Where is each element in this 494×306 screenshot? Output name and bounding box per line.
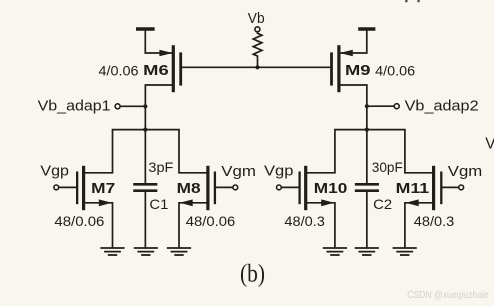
ground (M11) xyxy=(394,248,416,255)
svg-text:M10: M10 xyxy=(314,180,348,197)
svg-text:M9: M9 xyxy=(345,62,371,79)
svg-text:C2: C2 xyxy=(373,196,392,212)
ground (C1) xyxy=(135,248,157,255)
clipped text remnant (top edge) xyxy=(405,0,420,2)
wire M10 gate xyxy=(282,186,299,188)
svg-text:M8: M8 xyxy=(177,180,201,197)
ground (M10) xyxy=(324,248,346,255)
wire M9 drain to C2 xyxy=(339,85,367,183)
junction resistor/gate rail xyxy=(255,65,259,69)
resistor (Vb bias) xyxy=(253,32,262,67)
wire left cell drain rail (M7 drain - node - M8 drain) xyxy=(85,130,206,173)
svg-text:Vgm: Vgm xyxy=(221,164,256,180)
wire M7 source to ground xyxy=(85,203,112,247)
junction Vb_adap1 / M6 drain xyxy=(143,104,147,108)
junction Vb_adap2 / M9 drain xyxy=(365,104,369,108)
transistor M10 xyxy=(300,167,335,208)
svg-text:C1: C1 xyxy=(149,196,168,212)
svg-text:3pF: 3pF xyxy=(148,160,173,175)
transistor M7 xyxy=(77,167,112,208)
svg-text:(b): (b) xyxy=(240,258,265,287)
ground (M7) xyxy=(101,248,123,255)
wire gate rail M6-M9 xyxy=(181,66,332,68)
svg-text:CSDN @xueqiuzhale: CSDN @xueqiuzhale xyxy=(407,289,489,301)
transistor M11 xyxy=(406,167,442,208)
svg-text:Vb_adap2: Vb_adap2 xyxy=(405,98,479,114)
junction right rail / C2 xyxy=(365,128,369,132)
node Vgp (M7 gate: label + open terminal) xyxy=(40,164,69,190)
node Vgm (M11 gate: open terminal + label) xyxy=(448,164,483,190)
wire M8 gate xyxy=(216,186,233,188)
svg-text:M6: M6 xyxy=(143,62,169,79)
svg-text:Vb: Vb xyxy=(248,11,265,27)
wire M6 source xyxy=(145,31,171,54)
wire M8 source to ground xyxy=(179,203,206,247)
node Vgm (M8 gate: open terminal + label) xyxy=(221,164,256,190)
transistor M8 xyxy=(180,167,215,208)
junction left rail / C1 xyxy=(143,128,147,132)
wire M11 gate xyxy=(443,186,459,188)
svg-text:48/0.06: 48/0.06 xyxy=(54,213,104,229)
svg-text:48/0.3: 48/0.3 xyxy=(284,213,325,229)
svg-text:48/0.06: 48/0.06 xyxy=(186,213,236,229)
wire M10 source to ground xyxy=(307,203,335,247)
VDD bar (M9 source) xyxy=(360,27,374,31)
svg-text:30pF: 30pF xyxy=(372,160,403,175)
svg-text:4/0.06: 4/0.06 xyxy=(375,62,415,78)
svg-text:V: V xyxy=(485,136,494,153)
node Vb (label + open terminal) xyxy=(248,11,265,32)
wire M6 drain to C1 xyxy=(145,85,173,183)
capacitor C1 xyxy=(135,184,156,247)
svg-text:Vgm: Vgm xyxy=(448,164,483,180)
svg-text:4/0.06: 4/0.06 xyxy=(99,62,139,78)
svg-text:48/0.3: 48/0.3 xyxy=(414,213,455,229)
wire M11 source to ground xyxy=(405,203,432,247)
wire right cell drain rail (M10 drain - node - M11 drain) xyxy=(307,130,432,173)
ground (M8) xyxy=(168,248,190,255)
node Vb_adap2 (open terminal + label) xyxy=(394,98,478,114)
wire Vb_adap2 tap xyxy=(367,105,394,107)
transistor M9 xyxy=(332,47,353,91)
transistor M6 xyxy=(159,47,180,91)
svg-text:Vb_adap1: Vb_adap1 xyxy=(38,98,111,114)
node Vb_adap1 (label + open terminal) xyxy=(38,98,121,114)
capacitor C2 xyxy=(356,184,377,247)
VDD bar (M6 source) xyxy=(138,27,153,31)
svg-text:M11: M11 xyxy=(396,180,430,197)
wire Vb_adap1 tap xyxy=(120,105,145,107)
node Vgp (M10 gate: label + open terminal) xyxy=(264,164,294,190)
ground (C2) xyxy=(356,248,378,255)
wire M9 source xyxy=(341,31,367,54)
svg-text:Vgp: Vgp xyxy=(40,164,69,180)
wire M7 gate xyxy=(59,186,76,188)
svg-text:Vgp: Vgp xyxy=(264,164,294,180)
svg-text:M7: M7 xyxy=(91,180,115,197)
